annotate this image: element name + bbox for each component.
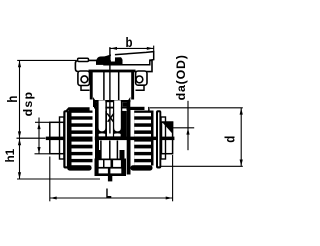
svg-text:b: b [126,34,133,50]
svg-text:da(OD): da(OD) [174,54,188,100]
svg-text:dsp: dsp [21,91,35,117]
svg-text:h: h [4,95,20,102]
svg-text:L: L [106,187,112,201]
svg-text:h1: h1 [3,148,17,162]
svg-text:d: d [221,136,237,143]
